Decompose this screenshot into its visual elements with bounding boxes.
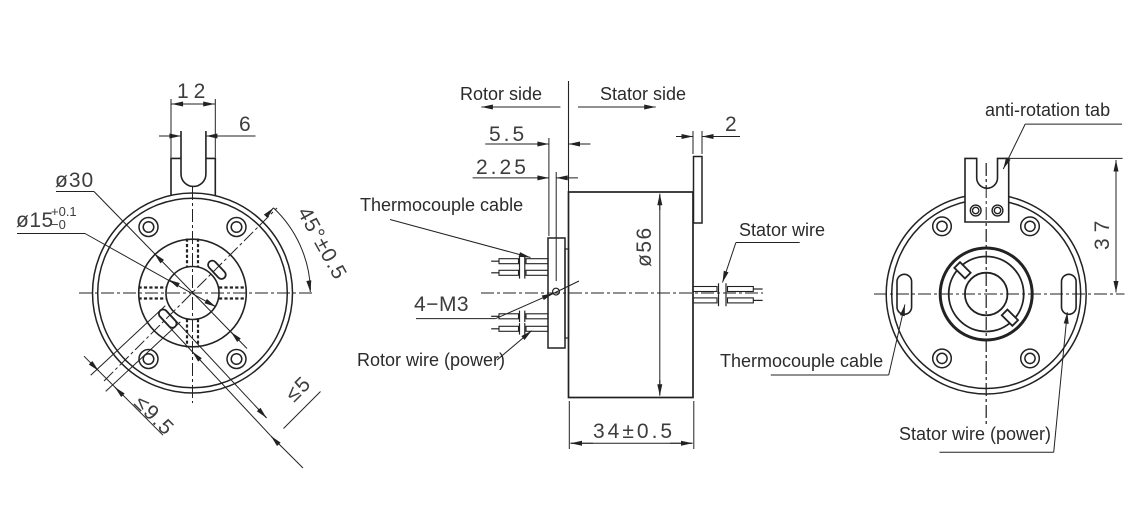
svg-text:2: 2	[725, 113, 740, 136]
boss circle o30	[139, 239, 247, 347]
left wire slot	[897, 274, 912, 314]
svg-text:6: 6	[239, 113, 254, 136]
right screw hole bottom-right	[1021, 349, 1040, 368]
anti-rotation tab (top of left view)	[171, 158, 215, 195]
arc slot top-right	[206, 259, 227, 281]
hidden keyway dashes bottom pair	[186, 319, 188, 348]
thermocouple leader	[390, 220, 531, 258]
svg-text:Rotor side: Rotor side	[460, 84, 542, 104]
thick center ring	[940, 248, 1032, 340]
outer flange circle	[93, 193, 293, 393]
dim 2.25 lines	[473, 177, 549, 179]
middle horizontal centerline	[481, 292, 763, 294]
right view vertical centerline	[985, 163, 987, 424]
dim 34 extension lines	[568, 401, 570, 449]
bore circle o15	[166, 267, 219, 320]
right inner rim circle	[892, 200, 1081, 389]
37 dim line	[1115, 160, 1117, 175]
right outer circle	[886, 194, 1086, 394]
stator wire 1 right	[693, 283, 763, 295]
inner rim circle	[98, 198, 288, 388]
slot width ext line A (to lower right)	[166, 310, 267, 418]
o15 label underline	[17, 233, 85, 235]
screw hole top-left	[139, 218, 158, 237]
svg-text:45°±0.5: 45°±0.5	[293, 203, 352, 284]
stator wire power leader	[940, 451, 1054, 453]
side tab on right of body	[694, 157, 703, 224]
slot width ext line B	[159, 316, 271, 436]
screw hole bottom-left	[139, 350, 158, 369]
dim 12 extension lines	[170, 99, 172, 158]
o56 dim line vertical	[659, 195, 661, 395]
o30 leader line through center	[94, 192, 247, 349]
dim 34 line	[571, 442, 594, 444]
Stator side arrow	[578, 106, 656, 108]
notch tab upper-left	[954, 262, 970, 278]
M3 screw hole circle	[553, 288, 560, 295]
stator body rectangle	[569, 192, 694, 398]
4-M3 leader	[416, 318, 496, 320]
dim 2 extension lines over tab	[692, 131, 694, 154]
rotor wire leader	[497, 331, 532, 360]
left view 45-degree diagonal centerline	[104, 208, 277, 381]
stator wire leader	[736, 242, 800, 244]
right screw hole top-left	[933, 217, 952, 236]
Rotor side arrow	[481, 106, 560, 108]
right screw hole bottom-left	[933, 349, 952, 368]
right thermocouple leader	[771, 374, 889, 376]
dim 2.25 extension line	[555, 172, 557, 281]
svg-text:ø15: ø15	[16, 209, 54, 232]
svg-text:Thermocouple cable: Thermocouple cable	[720, 351, 883, 371]
svg-text:ø56: ø56	[633, 226, 656, 267]
tab U slot	[181, 131, 206, 186]
tab rivet right	[992, 205, 1003, 216]
right view vertical centerline over tab	[985, 163, 987, 424]
anti-rotation tab front view	[965, 158, 1009, 222]
svg-text:12: 12	[177, 80, 210, 103]
bore circle	[965, 273, 1008, 316]
left view vertical centerline	[192, 187, 194, 403]
thermocouple wire 2 left	[491, 267, 548, 279]
mounting face vertical line	[568, 81, 570, 192]
svg-text:≤9.5: ≤9.5	[129, 391, 178, 440]
hidden keyway dashes right pair	[219, 286, 247, 288]
rotor power wire 1 left	[491, 311, 548, 323]
right view horizontal centerline	[874, 293, 1125, 295]
arc slot bottom-left	[157, 308, 178, 330]
svg-text:Stator wire (power): Stator wire (power)	[899, 424, 1051, 444]
dim line for <=5	[284, 392, 321, 429]
svg-text:2.25: 2.25	[476, 156, 529, 179]
svg-text:Rotor wire (power): Rotor wire (power)	[357, 350, 505, 370]
svg-text:Thermocouple cable: Thermocouple cable	[360, 195, 523, 215]
middle ring	[949, 257, 1024, 332]
svg-text:−0: −0	[51, 217, 66, 232]
dim 12 line	[171, 103, 215, 105]
dim 5.5 extension line	[548, 138, 550, 236]
tab rivet left	[970, 205, 981, 216]
slot width arrows	[258, 409, 266, 418]
svg-text:ø30: ø30	[55, 169, 94, 192]
rotor flange plate	[548, 238, 565, 348]
<=9.5 extension line 2	[106, 322, 181, 392]
left view horizontal centerline	[79, 292, 313, 294]
svg-text:Stator side: Stator side	[600, 84, 686, 104]
dim 6 line	[159, 135, 181, 137]
notch tab lower-right	[1002, 310, 1018, 326]
svg-text:Stator wire: Stator wire	[739, 220, 825, 240]
right screw hole top-right	[1021, 217, 1040, 236]
hidden keyway dashes left pair	[139, 286, 167, 288]
svg-text:34±0.5: 34±0.5	[593, 420, 675, 443]
<=9.5 arrows	[91, 363, 99, 371]
stator wire 2 right	[693, 295, 763, 307]
screw hole bottom-right	[227, 350, 246, 369]
37 dim extension line	[1009, 157, 1123, 159]
rotor power wire 2 left	[491, 323, 548, 335]
right wire slot	[1062, 274, 1077, 314]
hidden keyway dashes top pair	[139, 239, 247, 348]
screw hole top-right	[227, 218, 246, 237]
svg-text:anti-rotation tab: anti-rotation tab	[985, 100, 1110, 120]
<=9.5 extension line 1	[91, 306, 166, 376]
hub strip behind flange	[565, 249, 569, 338]
svg-text:5.5: 5.5	[489, 123, 527, 146]
o30 label underline	[56, 191, 94, 193]
anti-rotation tab leader	[1025, 123, 1122, 125]
o15 leader line through center	[85, 234, 216, 307]
<=9.5 dim line	[84, 356, 163, 435]
dim 5.5 lines	[485, 143, 549, 145]
45 degree dim arc	[274, 208, 311, 290]
thermocouple wire 1 left	[491, 256, 548, 268]
dim 2 lines	[676, 136, 693, 138]
svg-text:37: 37	[1091, 215, 1114, 250]
svg-text:4−M3: 4−M3	[414, 293, 469, 316]
